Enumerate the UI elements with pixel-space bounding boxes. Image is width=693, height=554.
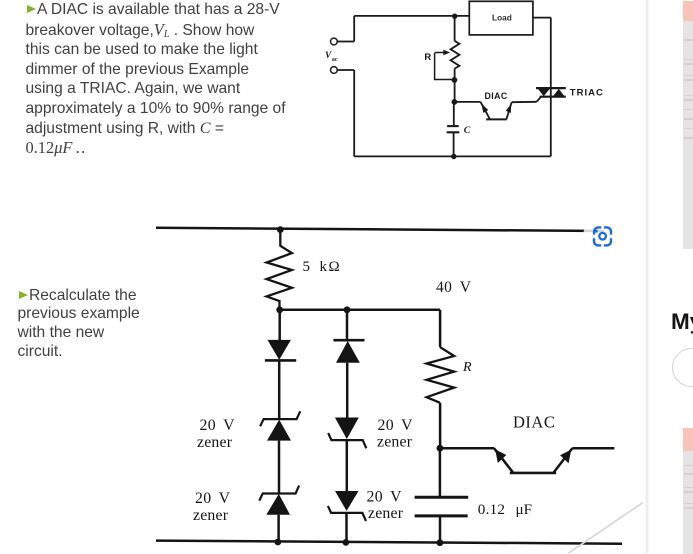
wire Z1 to Z2 xyxy=(278,441,281,494)
node wiper junction xyxy=(452,77,458,83)
zener Z2 bar with hooks xyxy=(259,486,299,501)
wiper bracket wire xyxy=(435,53,453,80)
capacitor 0.12uF top plate xyxy=(415,496,469,499)
svg-text:0.12: 0.12 xyxy=(478,501,505,518)
wire left branch down xyxy=(278,310,281,340)
wire Z4 to bottom rail xyxy=(345,513,348,543)
svg-text:zener: zener xyxy=(368,505,404,522)
diode D2 triangle (up) xyxy=(336,341,360,363)
label Vac xyxy=(325,51,338,63)
sidebar heading (cut off) xyxy=(671,309,693,335)
wire right branch down to R xyxy=(439,310,442,347)
load box xyxy=(469,1,533,35)
wire top rail xyxy=(156,228,604,231)
svg-text:DIAC: DIAC xyxy=(513,412,555,431)
TRIAC bottom bar xyxy=(540,96,566,98)
svg-text:40 V: 40 V xyxy=(436,279,472,296)
wire bottom rail xyxy=(156,541,622,544)
TRIAC left triangle xyxy=(538,89,550,96)
sidebar thumbnail 2 xyxy=(683,428,693,554)
node bottom rail middle xyxy=(343,539,350,546)
zener Z1 triangle (up) xyxy=(267,420,291,441)
wire D2 to zener Z3 xyxy=(346,363,349,418)
DIAC left diagonal xyxy=(494,448,513,473)
diode D1 bar xyxy=(265,359,296,362)
diode D2 bar xyxy=(333,339,364,342)
wire DIAC left lead xyxy=(454,101,480,103)
node bottom rail at C branch xyxy=(451,154,456,159)
DIAC right diagonal xyxy=(506,102,511,119)
wire left rail vertical xyxy=(353,70,355,156)
svg-text:20 V: 20 V xyxy=(367,489,403,506)
svg-text:C: C xyxy=(464,125,471,136)
paragraph: recalculate note xyxy=(18,287,168,362)
node bottom rail left xyxy=(275,539,282,546)
wiper arrow of R xyxy=(435,52,445,54)
wire left riser to top rail xyxy=(353,16,355,42)
wire D1 to zener Z1 xyxy=(278,360,281,419)
zener Z3 triangle (down) xyxy=(335,418,359,440)
wire R to DIAC node xyxy=(439,403,442,448)
svg-text:20 V: 20 V xyxy=(200,417,236,434)
TRIAC U1 top bar xyxy=(536,87,566,89)
DIAC left arrowhead xyxy=(495,449,506,463)
terminal circle bottom (Vac -) xyxy=(331,67,338,74)
wire capacitor to bottom rail xyxy=(439,516,442,543)
DIAC bar xyxy=(486,118,506,120)
DIAC left arrowhead xyxy=(481,103,488,113)
svg-text:zener: zener xyxy=(193,507,229,524)
wire below potentiometer xyxy=(454,69,456,102)
svg-text:R: R xyxy=(462,360,472,375)
zener Z4 triangle (down) xyxy=(335,491,359,511)
paragraph: problem statement xyxy=(26,0,306,159)
wire middle branch top xyxy=(346,310,349,340)
screenshot lens icon xyxy=(583,216,623,256)
wire gate diagonal to TRIAC xyxy=(537,97,541,102)
DIAC right arrowhead xyxy=(506,104,511,113)
wire DIAC right lead xyxy=(572,447,614,450)
TRIAC right triangle xyxy=(553,89,565,97)
zener Z4 bar with hooks xyxy=(328,506,366,521)
svg-text:5 kΩ: 5 kΩ xyxy=(303,259,342,275)
node at R branch on top rail xyxy=(452,14,457,19)
sidebar thumbnail 1 xyxy=(683,1,693,249)
diode D1 (down) triangle xyxy=(268,340,291,360)
svg-text:TRIAC: TRIAC xyxy=(570,88,604,99)
capacitor 0.12uF bottom plate xyxy=(415,514,468,517)
wire Z3 to Z4 xyxy=(346,440,349,491)
svg-text:R: R xyxy=(424,52,431,63)
svg-text:Load: Load xyxy=(492,13,512,23)
wire rail to potentiometer R xyxy=(454,16,456,41)
wire right rail vertical xyxy=(550,18,552,157)
svg-text:DIAC: DIAC xyxy=(485,91,508,101)
capacitor C bottom plate xyxy=(447,131,460,133)
resistor R zigzag xyxy=(427,347,455,403)
scan artifact diagonal line xyxy=(568,503,643,554)
node middle branch top xyxy=(344,306,351,313)
svg-text:20 V: 20 V xyxy=(195,490,231,507)
terminal circle top (Vac +) xyxy=(331,38,338,45)
right sidebar border xyxy=(645,0,649,553)
svg-text:ac: ac xyxy=(332,56,338,63)
sidebar avatar circle xyxy=(672,348,693,387)
svg-text:zener: zener xyxy=(197,434,233,451)
potentiometer R zigzag xyxy=(451,41,460,69)
wire capacitor to bottom rail xyxy=(453,132,455,156)
DIAC left diagonal xyxy=(481,102,490,119)
node DIAC junction xyxy=(452,99,458,105)
resistor 5 kOhm zigzag xyxy=(267,230,292,310)
node top rail / 5k resistor xyxy=(277,226,284,233)
wire from bottom terminal xyxy=(337,69,354,71)
wire load box to right rail xyxy=(533,17,551,19)
zener Z2 triangle (up) xyxy=(266,494,290,515)
zener Z3 bar with hooks xyxy=(328,433,366,448)
wire bottom rail xyxy=(354,155,551,157)
DIAC right arrowhead xyxy=(560,450,571,464)
DIAC bar xyxy=(510,472,556,475)
wire Z2 to bottom rail xyxy=(277,515,280,542)
zener Z1 bar with hooks xyxy=(260,411,300,426)
node bottom rail right xyxy=(437,539,444,546)
wire top rail xyxy=(354,15,469,17)
svg-text:20 V: 20 V xyxy=(378,417,414,434)
wire DIAC left lead xyxy=(440,447,494,450)
wire DIAC node to capacitor C xyxy=(453,102,455,125)
node DIAC junction xyxy=(437,445,444,452)
svg-text:zener: zener xyxy=(377,434,413,451)
wire DIAC right lead xyxy=(512,101,537,103)
capacitor C top plate xyxy=(447,125,459,127)
wire from top terminal xyxy=(337,41,354,43)
wire node to capacitor xyxy=(439,448,442,497)
wire horizontal distribution xyxy=(280,309,440,312)
svg-text:μF: μF xyxy=(516,501,533,518)
DIAC right diagonal xyxy=(553,448,572,473)
node below 5k resistor xyxy=(276,306,283,313)
